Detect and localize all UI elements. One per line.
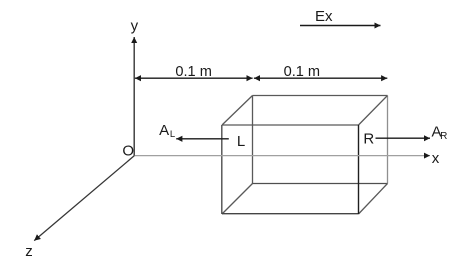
svg-text:z: z bbox=[25, 243, 33, 260]
svg-text:0.1 m: 0.1 m bbox=[284, 64, 321, 80]
svg-text:x: x bbox=[432, 150, 440, 167]
svg-text:R: R bbox=[363, 130, 374, 147]
svg-text:Ex: Ex bbox=[315, 8, 333, 25]
svg-text:A: A bbox=[159, 122, 169, 139]
svg-text:L: L bbox=[170, 129, 175, 140]
svg-text:y: y bbox=[131, 18, 139, 35]
svg-text:R: R bbox=[440, 131, 447, 142]
svg-text:0.1 m: 0.1 m bbox=[175, 64, 212, 80]
svg-text:L: L bbox=[237, 133, 245, 150]
svg-text:O: O bbox=[122, 143, 134, 160]
